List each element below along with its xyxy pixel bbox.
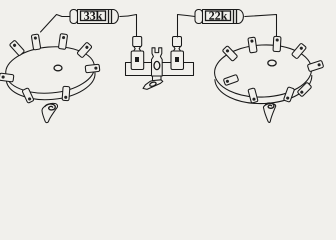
rotary switch B center hole <box>268 60 276 66</box>
tag strip centre lug (forked) <box>152 48 163 76</box>
switch B lug 9 (front right) <box>297 82 312 97</box>
wire from switch A lug 2 to resistor R1 <box>41 15 63 33</box>
switch A wiper cone <box>42 103 58 122</box>
switch A lug 4 (upper right) <box>77 42 92 58</box>
rotary switch A center hole <box>54 65 62 71</box>
rotary switch B disk rim (side) <box>213 43 312 106</box>
resistor R2 value label 22k <box>209 11 227 19</box>
switch B lug 2 (top left of centre) <box>248 37 257 53</box>
switch B lug 1 (upper left) <box>222 46 238 62</box>
tag strip left lug <box>131 37 144 70</box>
switch B wiper cone <box>263 103 275 122</box>
tag strip bar <box>126 63 194 76</box>
switch A lug 2 (top, wire attached) <box>31 34 40 50</box>
rotary switch A disk top face <box>4 43 97 97</box>
switch B lug 4 (upper right) <box>291 43 306 59</box>
rotary switch A disk rim (side) <box>4 43 97 103</box>
resistor R1 value label 33k <box>84 11 102 19</box>
rotary switch B disk top face <box>213 43 312 99</box>
switch A lug 3 (top right of centre) <box>58 34 67 50</box>
tag strip right lug <box>171 37 184 70</box>
switch A lug 5 (left side) <box>0 73 14 82</box>
switch A lug 8 (front lower middle) <box>62 86 70 100</box>
wire from resistor R1 to tag strip left lug <box>128 15 137 38</box>
tag strip mounting foot <box>143 76 163 89</box>
switch A lug 7 (front lower left) <box>22 88 34 104</box>
resistor R1 body <box>62 10 128 24</box>
switch A lug 1 (upper left) <box>9 40 24 56</box>
switch B lug 6 (left lower side) <box>223 74 238 85</box>
switch B lug 3 (top, wire attached) <box>273 36 281 51</box>
switch A lug 6 (right side) <box>85 64 100 73</box>
resistor R2 body <box>195 10 253 24</box>
switch B lug 5 (right side) <box>307 60 323 71</box>
wire from resistor R2 to switch B lug <box>253 15 277 38</box>
switch B lug 7 (front lower left) <box>248 88 258 103</box>
wire from tag strip right lug to resistor R2 <box>178 15 196 38</box>
switch B lug 8 (front lower right) <box>283 87 294 102</box>
